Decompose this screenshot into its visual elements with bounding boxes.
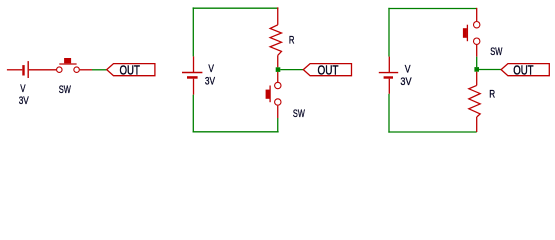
wire switch SW1 pin lead	[80, 69, 92, 71]
svg-text:3V: 3V	[19, 95, 30, 107]
svg-text:SW: SW	[490, 46, 503, 58]
switch SW3 (pushbutton, vertical)	[463, 22, 480, 45]
resistor R2 bottom lead	[476, 117, 478, 132]
svg-text:3V: 3V	[400, 76, 412, 88]
svg-text:OUT: OUT	[318, 63, 339, 78]
battery V1 (3V, horizontal)	[22, 61, 28, 78]
svg-text:V: V	[405, 63, 411, 75]
svg-text:R: R	[489, 89, 495, 101]
node OUT junction (green square)	[276, 67, 281, 72]
net flag OUT	[501, 63, 549, 78]
resistor R1 bottom lead	[277, 55, 279, 67]
wire top (net V+)	[388, 8, 476, 10]
wire top (net V+)	[193, 7, 279, 9]
svg-text:SW: SW	[59, 84, 72, 96]
wire from left edge to battery V1	[7, 69, 22, 71]
wire left lower	[388, 94, 390, 133]
wire node to flag (net OUT)	[280, 69, 303, 71]
svg-text:OUT: OUT	[120, 63, 140, 78]
net flag OUT	[107, 63, 155, 78]
wire switch to bottom (green)	[277, 118, 279, 132]
svg-text:V: V	[208, 63, 214, 75]
resistor R2 (zigzag)	[469, 85, 480, 117]
switch SW2 bottom lead	[277, 106, 279, 118]
switch SW2 (pushbutton, vertical)	[266, 82, 281, 105]
wire switch to node (green)	[476, 57, 478, 67]
wire battery V1 to switch SW1	[29, 69, 56, 71]
wire bottom (ground net)	[193, 131, 279, 133]
svg-text:R: R	[289, 35, 295, 47]
wire left upper	[192, 7, 194, 56]
switch SW2 top lead	[277, 72, 279, 82]
wire bottom (ground net)	[388, 131, 476, 133]
svg-text:V: V	[20, 83, 26, 95]
svg-text:3V: 3V	[205, 76, 216, 88]
switch SW3 bottom lead	[476, 45, 478, 57]
net flag OUT	[303, 63, 351, 78]
node OUT junction (green square)	[474, 67, 479, 72]
wire node to flag (net OUT)	[479, 69, 501, 71]
battery V2 (3V, vertical)	[182, 56, 202, 94]
switch SW3 top lead	[476, 8, 478, 21]
resistor R2 top lead	[476, 72, 478, 86]
wire left upper	[388, 8, 390, 57]
battery V3 (3V, vertical)	[379, 57, 398, 94]
resistor R1 (zigzag)	[270, 25, 281, 56]
switch SW1 (pushbutton, horizontal)	[57, 58, 80, 72]
wire left lower	[192, 95, 194, 133]
svg-text:OUT: OUT	[513, 63, 533, 78]
resistor R1 top lead	[277, 7, 279, 24]
wire net OUT (green)	[92, 69, 107, 71]
svg-text:SW: SW	[293, 108, 305, 120]
